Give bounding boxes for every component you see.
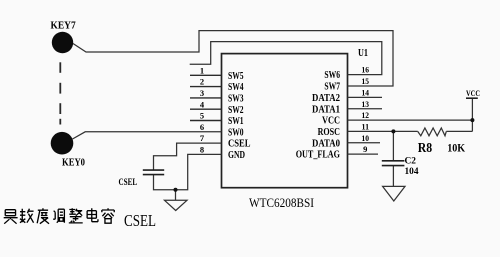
svg-text:OUT_FLAG: OUT_FLAG [296, 150, 340, 161]
svg-text:SW6: SW6 [324, 70, 340, 81]
svg-text:U1: U1 [358, 47, 368, 59]
svg-text:8: 8 [200, 145, 204, 155]
svg-text:104: 104 [405, 167, 419, 177]
svg-text:SW2: SW2 [228, 105, 244, 116]
svg-text:15: 15 [362, 76, 370, 86]
svg-text:DATA1: DATA1 [312, 104, 340, 115]
svg-text:GND: GND [228, 150, 245, 161]
svg-text:11: 11 [362, 122, 370, 132]
svg-text:KEY7: KEY7 [51, 20, 77, 32]
svg-text:SW3: SW3 [228, 94, 244, 105]
svg-text:SW5: SW5 [228, 71, 244, 82]
svg-text:16: 16 [362, 65, 370, 75]
svg-text:VCC: VCC [322, 116, 340, 127]
svg-text:WTC6208BSI: WTC6208BSI [249, 196, 314, 210]
svg-text:VCC: VCC [466, 88, 480, 98]
svg-text:1: 1 [200, 65, 204, 75]
svg-text:SW1: SW1 [228, 116, 244, 127]
svg-text:6: 6 [200, 122, 204, 132]
svg-text:10: 10 [362, 133, 370, 143]
svg-text:SW7: SW7 [324, 82, 340, 93]
svg-text:10K: 10K [447, 140, 466, 154]
svg-text:DATA2: DATA2 [312, 93, 340, 104]
svg-text:9: 9 [363, 144, 367, 154]
svg-text:14: 14 [362, 88, 370, 98]
svg-text:R8: R8 [418, 141, 432, 156]
svg-text:13: 13 [362, 99, 370, 109]
svg-text:C2: C2 [405, 156, 417, 166]
svg-text:CSEL: CSEL [124, 211, 156, 230]
svg-text:12: 12 [362, 110, 370, 120]
svg-text:SW0: SW0 [228, 127, 244, 138]
svg-text:ROSC: ROSC [318, 127, 340, 138]
svg-text:SW4: SW4 [228, 82, 244, 93]
svg-text:3: 3 [200, 88, 204, 98]
svg-text:5: 5 [200, 111, 204, 121]
svg-text:CSEL: CSEL [228, 139, 251, 150]
svg-text:KEY0: KEY0 [62, 156, 85, 168]
svg-text:CSEL: CSEL [119, 178, 138, 188]
svg-text:2: 2 [200, 77, 204, 87]
svg-text:DATA0: DATA0 [312, 138, 340, 149]
